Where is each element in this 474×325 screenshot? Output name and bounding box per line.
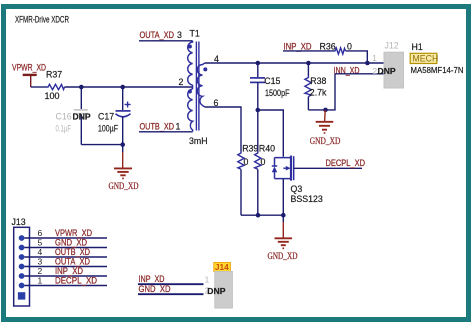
svg-text:MECH: MECH bbox=[412, 54, 438, 64]
resistor R37 bbox=[45, 69, 65, 101]
svg-text:GND_XD: GND_XD bbox=[310, 137, 341, 147]
svg-text:H1: H1 bbox=[412, 42, 423, 52]
svg-text:Q3: Q3 bbox=[291, 184, 303, 194]
svg-text:DNP: DNP bbox=[73, 111, 91, 121]
svg-text:3mH: 3mH bbox=[189, 136, 208, 146]
svg-text:0: 0 bbox=[244, 157, 249, 167]
node junction R38 top bbox=[306, 61, 311, 66]
node junction C15 top bbox=[255, 61, 260, 66]
capacitor C15 bbox=[250, 63, 290, 110]
wire C16-C17 bottom link bbox=[81, 144, 123, 146]
svg-text:INP_XD: INP_XD bbox=[284, 41, 312, 51]
svg-text:R38: R38 bbox=[310, 76, 326, 86]
net label INP_XD and resistor R36 bbox=[283, 41, 367, 63]
svg-text:0: 0 bbox=[261, 157, 266, 167]
svg-text:OUTA_XD: OUTA_XD bbox=[55, 257, 90, 267]
svg-text:OUTA_XD: OUTA_XD bbox=[140, 30, 175, 40]
J13 net labels bbox=[55, 228, 97, 286]
net label GND_XD (J14) and wire bbox=[138, 284, 204, 294]
pin 2 bbox=[19, 273, 25, 279]
node junction C15 bottom bbox=[255, 108, 260, 113]
source stem bbox=[282, 179, 284, 216]
svg-text:INP_XD: INP_XD bbox=[139, 274, 165, 284]
svg-text:1: 1 bbox=[176, 122, 181, 132]
node junction R36 right bbox=[365, 61, 370, 66]
svg-text:GND_XD: GND_XD bbox=[109, 182, 139, 192]
svg-text:T1: T1 bbox=[190, 29, 200, 39]
svg-text:GND_XD: GND_XD bbox=[55, 238, 87, 248]
J13 pin numbers bbox=[38, 228, 43, 286]
resistor R39 bbox=[238, 143, 259, 215]
polarity dot primary bottom bbox=[188, 90, 192, 94]
center tap pin 2 bbox=[192, 85, 194, 89]
svg-text:DECPL_XD: DECPL_XD bbox=[55, 276, 97, 286]
svg-text:C16: C16 bbox=[56, 111, 72, 121]
svg-text:R37: R37 bbox=[46, 69, 62, 79]
svg-text:0.1µF: 0.1µF bbox=[56, 123, 72, 133]
pin 4 bbox=[19, 254, 25, 260]
primary winding top bbox=[188, 41, 193, 85]
secondary winding bbox=[197, 63, 205, 107]
svg-text:XFMR-Drive XDCR: XFMR-Drive XDCR bbox=[15, 15, 69, 26]
pin 3 bbox=[19, 264, 25, 270]
wire pin6 drop bbox=[205, 107, 241, 152]
net label INP_XD (J14) and wire bbox=[138, 274, 204, 284]
core bbox=[195, 42, 197, 131]
svg-text:R40: R40 bbox=[259, 143, 275, 153]
svg-text:6: 6 bbox=[38, 228, 43, 238]
connector J13 bbox=[12, 217, 30, 306]
svg-text:MA58MF14-7N: MA58MF14-7N bbox=[411, 65, 464, 75]
channel bar bbox=[290, 156, 292, 181]
power symbol VPWR_XD bbox=[12, 63, 46, 87]
connector J12 bbox=[384, 40, 404, 88]
polarity dot primary top bbox=[188, 45, 192, 49]
resistor R40 bbox=[255, 110, 276, 215]
gate bar bbox=[293, 156, 295, 180]
primary winding bottom bbox=[188, 89, 193, 132]
wire Q3 drain link bbox=[258, 110, 284, 157]
svg-text:OUTB_XD: OUTB_XD bbox=[55, 247, 90, 257]
svg-text:INP_XD: INP_XD bbox=[55, 266, 83, 276]
wire R38 bottom to INN riser bbox=[308, 74, 335, 110]
wire J13 pin5 bbox=[25, 247, 108, 249]
net label OUTA_XD, pin 3 wire bbox=[139, 30, 193, 41]
wire bottom rail bbox=[241, 214, 283, 216]
wire J13 pin4 bbox=[25, 256, 108, 258]
svg-text:100: 100 bbox=[45, 91, 60, 101]
pin 5 bbox=[19, 245, 25, 251]
svg-text:C17: C17 bbox=[98, 111, 114, 121]
wire J13 pin2 bbox=[25, 275, 108, 277]
svg-text:J12: J12 bbox=[385, 40, 399, 50]
svg-text:DECPL_XD: DECPL_XD bbox=[326, 158, 366, 168]
polarity dot secondary bbox=[203, 67, 207, 71]
svg-text:3: 3 bbox=[177, 30, 182, 40]
svg-text:BSS123: BSS123 bbox=[291, 194, 323, 204]
node junction rail-C16 bbox=[79, 85, 84, 90]
body diode bbox=[272, 166, 277, 172]
svg-text:OUTB_XD: OUTB_XD bbox=[140, 122, 175, 132]
svg-text:R39: R39 bbox=[242, 143, 258, 153]
pin 1 bbox=[19, 283, 25, 289]
ground GND_XD (below C17) bbox=[109, 145, 139, 192]
node junction GND2 bbox=[323, 108, 328, 113]
pin 1 square marker bbox=[18, 292, 25, 299]
svg-text:2: 2 bbox=[179, 77, 184, 87]
wire gate to DECPL bbox=[294, 167, 362, 169]
capacitor C16 (DNP, gray) bbox=[56, 87, 91, 145]
wire J13 pin1 bbox=[25, 285, 108, 287]
svg-text:GND_XD: GND_XD bbox=[268, 252, 298, 262]
svg-text:2.7k: 2.7k bbox=[310, 88, 327, 98]
svg-text:VPWR_XD: VPWR_XD bbox=[55, 228, 92, 238]
svg-text:5: 5 bbox=[38, 238, 43, 248]
pin 6 bbox=[19, 235, 25, 241]
node junction C17 bottom bbox=[120, 142, 125, 147]
wire J13 pin6 bbox=[25, 237, 108, 239]
svg-text:GND_XD: GND_XD bbox=[139, 284, 171, 294]
svg-text:1: 1 bbox=[372, 53, 377, 63]
svg-text:0: 0 bbox=[347, 41, 352, 51]
ground GND_XD (below Q3) bbox=[268, 215, 298, 262]
wire J13 pin3 bbox=[25, 266, 108, 268]
svg-text:1: 1 bbox=[205, 275, 210, 285]
wire VPWR rail bbox=[31, 86, 193, 88]
connector J14 bbox=[214, 262, 233, 308]
svg-text:100µF: 100µF bbox=[98, 123, 118, 133]
wire pin4 rail bbox=[205, 62, 384, 64]
svg-text:J13: J13 bbox=[12, 217, 26, 227]
ground GND_XD (below R38) bbox=[310, 110, 341, 147]
node junction rail-Q3 bbox=[281, 213, 286, 218]
net label OUTB_XD, pin 1 wire bbox=[139, 122, 193, 132]
mechanical H1 MECH MA58MF14-7N bbox=[410, 42, 463, 75]
node junction rail-C17 bbox=[120, 85, 125, 90]
svg-text:4: 4 bbox=[38, 247, 43, 257]
svg-text:DNP: DNP bbox=[207, 286, 225, 296]
svg-text:J14: J14 bbox=[215, 262, 229, 272]
transistor Q3 BSS123 bbox=[272, 156, 323, 216]
capacitor C17 bbox=[98, 87, 131, 145]
transformer T1 bbox=[179, 29, 220, 146]
svg-text:DNP: DNP bbox=[378, 66, 396, 76]
svg-text:3: 3 bbox=[38, 257, 43, 267]
node junction rail-R40 bbox=[256, 213, 261, 218]
svg-text:C15: C15 bbox=[264, 76, 280, 86]
svg-text:2: 2 bbox=[38, 266, 43, 276]
svg-text:1500pF: 1500pF bbox=[265, 88, 290, 98]
resistor R38 bbox=[305, 63, 327, 110]
svg-text:1: 1 bbox=[38, 276, 43, 286]
substrate arrow bbox=[283, 167, 287, 169]
svg-text:R36: R36 bbox=[320, 41, 336, 51]
svg-text:VPWR_XD: VPWR_XD bbox=[12, 63, 46, 73]
net label INN_XD and wire bbox=[334, 65, 384, 75]
